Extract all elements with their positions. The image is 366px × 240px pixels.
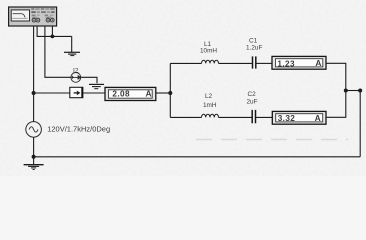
wire to ground A <box>71 36 73 52</box>
AC voltage source V1 <box>26 122 42 138</box>
faint artifact dashed line <box>196 139 348 141</box>
wire merge link <box>346 90 360 92</box>
wire IN- stub <box>37 26 72 36</box>
svg-text:3.32: 3.32 <box>278 114 296 123</box>
wire C2 to meter <box>256 116 272 118</box>
node OUT-/IN- junction <box>51 35 55 39</box>
wire split vertical <box>169 63 171 117</box>
node E bus junction <box>32 155 36 159</box>
ground B <box>89 84 104 88</box>
svg-text:10mH: 10mH <box>200 47 217 54</box>
inductor L1 <box>202 60 219 63</box>
terminal posts IN pair <box>32 18 36 22</box>
terminal posts OUT pair <box>46 18 50 22</box>
svg-text:C2: C2 <box>248 91 257 98</box>
wire probe to ground B <box>81 77 98 83</box>
wire L1 to C1 <box>219 62 252 64</box>
wire main chain left <box>34 92 70 94</box>
inductor L2 <box>202 114 219 117</box>
node A main top node <box>32 91 36 95</box>
wire branch2 right <box>326 91 346 118</box>
ammeter M4 reading 3.32 A <box>272 111 326 124</box>
wire display to split node <box>156 92 171 94</box>
node D right bus junction <box>358 89 362 93</box>
wire OUT+ down and right to probe <box>45 26 71 77</box>
wire bottom bus <box>34 156 361 158</box>
ground A <box>64 52 80 55</box>
svg-text:L2: L2 <box>205 93 213 100</box>
ammeter M2 reading 2.08 A <box>105 87 156 100</box>
wire OUT- stub <box>51 26 53 36</box>
current probe I2 <box>71 73 81 83</box>
ammeter M1 <box>70 87 83 97</box>
wire ammeter to display <box>83 92 105 94</box>
svg-text:A: A <box>315 58 321 68</box>
capacitor C2 <box>252 110 255 123</box>
wire branch1 left <box>170 62 201 64</box>
wire source bottom <box>33 137 35 157</box>
wire IN+ vertical from plotter to main node <box>33 26 35 93</box>
svg-text:120V/1.7kHz/0Deg: 120V/1.7kHz/0Deg <box>47 125 110 134</box>
wire source top <box>33 93 35 122</box>
node B split junction <box>168 91 172 95</box>
wire ground C stem <box>33 157 35 165</box>
svg-text:A: A <box>315 113 321 123</box>
svg-text:1.2uF: 1.2uF <box>246 45 262 52</box>
capacitor C1 <box>253 56 256 68</box>
bode plotter XBP1 <box>9 7 57 26</box>
svg-text:2uF: 2uF <box>247 99 258 106</box>
wire right vertical <box>359 91 361 157</box>
wire C1 to meter <box>256 62 272 64</box>
wire L2 to C2 <box>219 116 252 118</box>
ammeter M3 reading 1.23 A <box>272 56 326 69</box>
svg-text:1.23: 1.23 <box>277 59 295 68</box>
wire branch2 left <box>170 116 201 118</box>
face text specks <box>31 8 54 18</box>
node C branch merge junction <box>344 89 348 93</box>
svg-text:2.08: 2.08 <box>112 90 130 99</box>
wire branch1 right <box>326 63 346 90</box>
ground C <box>24 165 44 170</box>
svg-text:C1: C1 <box>249 37 258 44</box>
svg-text:1mH: 1mH <box>203 102 217 109</box>
svg-text:A: A <box>146 88 152 98</box>
